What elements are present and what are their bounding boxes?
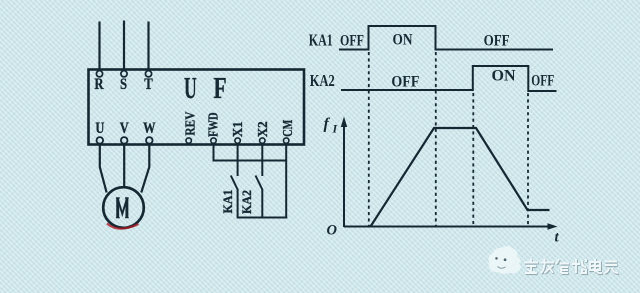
terminal CM: [284, 138, 289, 143]
svg-text:OFF: OFF: [340, 33, 364, 50]
svg-text:W: W: [143, 120, 155, 138]
terminal X1: [235, 138, 240, 143]
svg-text:X2: X2: [256, 121, 271, 137]
svg-text:U: U: [184, 72, 197, 105]
dashed line t2: [435, 52, 437, 227]
terminal X2: [260, 138, 265, 143]
dashed line t4: [527, 93, 529, 227]
red scribble under motor: [107, 224, 139, 229]
watermark logo bird: [488, 246, 520, 274]
wire KA2 to bottom bus: [261, 189, 263, 219]
terminal R: [96, 71, 102, 77]
svg-text:F: F: [213, 70, 226, 105]
svg-text:O: O: [327, 223, 338, 239]
svg-text:U: U: [95, 120, 104, 138]
dashed line t1: [368, 52, 370, 227]
wire bus FWD to CM: [213, 160, 287, 162]
svg-text:T: T: [144, 76, 153, 93]
terminal U: [97, 137, 104, 144]
wire V to motor: [123, 145, 125, 188]
terminal T: [145, 71, 151, 77]
terminal FWD: [211, 138, 216, 143]
wire R phase input: [98, 22, 100, 70]
terminal S: [121, 71, 127, 77]
KA1 waveform: [339, 26, 553, 50]
svg-text:V: V: [120, 120, 129, 138]
contact KA2 blade: [256, 176, 263, 190]
terminal W: [146, 137, 153, 144]
timing labels: [309, 30, 560, 245]
svg-text:FWD: FWD: [207, 112, 222, 137]
wire S phase input: [123, 21, 125, 70]
terminal V: [121, 137, 128, 144]
svg-text:OFF: OFF: [531, 73, 554, 90]
terminal REV: [186, 138, 191, 143]
wire KA1 to bottom bus: [237, 189, 239, 219]
watermark text 安成信控电气 (drawn strokes): [525, 260, 620, 274]
wire X1 drop: [237, 145, 239, 176]
wire CM drop: [285, 145, 287, 219]
wire W to motor: [141, 145, 149, 193]
wire X2 drop: [261, 145, 263, 176]
y axis arrowhead: [341, 117, 347, 128]
svg-text:R: R: [94, 76, 104, 93]
contact KA1 blade: [231, 176, 238, 190]
svg-text:OFF: OFF: [484, 33, 510, 50]
label M motor: [116, 198, 129, 218]
label texts: [94, 70, 296, 217]
axis arrowheads: [341, 117, 558, 230]
wire bottom bus to CM: [238, 217, 288, 219]
wire FWD drop: [213, 145, 215, 162]
frequency curve trapezoid: [371, 128, 550, 227]
x axis arrowhead: [548, 223, 558, 229]
svg-text:OFF: OFF: [391, 74, 419, 91]
svg-text:X1: X1: [231, 121, 246, 137]
svg-text:KA1: KA1: [220, 190, 235, 214]
svg-text:S: S: [120, 76, 127, 93]
KA2 waveform: [341, 66, 557, 91]
frequency axis horizontal: [344, 226, 552, 228]
wire U to motor: [100, 145, 107, 193]
wire T phase input: [147, 22, 149, 70]
svg-text:KA2: KA2: [310, 71, 335, 90]
svg-text:KA2: KA2: [239, 190, 254, 214]
svg-text:REV: REV: [184, 112, 199, 136]
svg-text:KA1: KA1: [309, 30, 333, 49]
svg-text:CM: CM: [281, 120, 296, 137]
inverter box U F: [89, 70, 305, 145]
svg-text:ON: ON: [492, 68, 516, 85]
dashed line t3: [472, 93, 474, 227]
svg-text:ON: ON: [393, 32, 413, 49]
motor M: [103, 187, 144, 228]
frequency axis vertical: [343, 124, 345, 227]
